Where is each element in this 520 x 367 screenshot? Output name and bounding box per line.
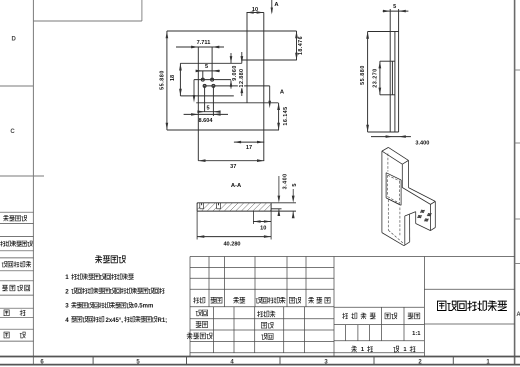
dim 10 (section) extensions <box>252 211 254 224</box>
dim 5 upper dimension line <box>196 70 220 72</box>
strip top edge + extension <box>197 202 296 204</box>
dim 5 lower dimension line <box>199 111 219 113</box>
top extension to 55.880 dim <box>368 31 391 33</box>
svg-text:10: 10 <box>260 225 266 231</box>
18-dim bottom extension / arm bottom y=95.9 <box>180 95 233 97</box>
svg-text:5: 5 <box>393 4 396 10</box>
tech requirements title 技术要求 <box>96 256 126 263</box>
dim 18 dimension line (vertical) <box>179 63 181 96</box>
svg-text:5: 5 <box>205 64 208 70</box>
svg-text:18.476: 18.476 <box>298 36 304 55</box>
section zigzag right end with arrow <box>269 86 271 102</box>
hole H4 lower-right <box>212 84 215 87</box>
left table label: 签字 <box>4 310 9 316</box>
svg-text:55.880: 55.880 <box>160 70 166 90</box>
left table label: (通)用件登记 <box>1 241 33 246</box>
svg-text:18: 18 <box>170 75 176 81</box>
section hatch <box>190 203 278 211</box>
svg-text:3.400: 3.400 <box>283 173 289 189</box>
row 设计 / 标准化 <box>196 310 208 316</box>
dim 18.476 dimension line <box>296 31 298 60</box>
arm lower edge y=102.8 <box>196 102 278 104</box>
ext line x=204.6 <box>204 86 206 112</box>
dim 7.711 dimension line <box>176 46 224 48</box>
svg-text:9.060: 9.060 <box>232 65 238 81</box>
part bottom edge + extensions y=130 <box>167 129 279 131</box>
svg-text:55.880: 55.880 <box>360 65 366 85</box>
hole slot 2 sides <box>216 203 218 209</box>
drawing border: top-left box horizontal <box>33 20 141 22</box>
dim 12.880 arrows <box>241 52 243 63</box>
dim 16.145 dimension line <box>278 103 280 130</box>
svg-text:12.880: 12.880 <box>239 69 245 88</box>
svg-text:10: 10 <box>252 7 258 13</box>
dim 3.400 dimension line (side bottom) <box>371 136 411 138</box>
slot bottom extension y=94.8 <box>380 94 395 96</box>
lower hole row line y=85.9 <box>203 85 270 87</box>
slot top extension y=61.2 <box>380 60 395 62</box>
ext line x=213.4 <box>212 86 214 116</box>
svg-text:5: 5 <box>206 105 209 111</box>
left table label: 零件代号 <box>4 216 27 221</box>
border bottom thick line <box>0 356 520 358</box>
dim 17 dimension line <box>234 141 264 143</box>
阶段标记 <box>343 313 376 319</box>
iso slot inner bottom edge <box>382 147 435 245</box>
tab left edge x=247 <box>246 13 248 103</box>
质量 <box>385 313 397 319</box>
drawing border: top-left box vertical <box>141 0 143 21</box>
dim 5 (section) arrows <box>292 189 294 196</box>
dim 3.400 (section) arrows <box>278 176 280 196</box>
svg-text:23.270: 23.270 <box>373 68 379 88</box>
svg-text:±0.5mm: ±0.5mm <box>131 304 153 310</box>
title block name box rows <box>190 257 515 357</box>
drawing border: right vertical line <box>514 0 516 365</box>
section zigzag left end with arrow <box>193 80 195 97</box>
svg-text:3.400: 3.400 <box>415 140 429 146</box>
iso holes on arm face <box>417 210 432 222</box>
plate top edge <box>390 31 398 33</box>
dim 9.060 arrows <box>230 53 232 63</box>
top edge + extension lines y=31 <box>167 30 297 32</box>
plate right edge + ext x=398.6 <box>398 9 400 132</box>
left table label: 日期 <box>4 332 9 338</box>
dim 10 dimension line <box>247 12 264 14</box>
dim 8.604 dimension line <box>184 113 228 115</box>
iso slot inner offset frame (hidden) <box>388 154 404 244</box>
part name 机械爪子固定架 <box>438 301 507 310</box>
dim 37 dimension line <box>198 160 264 162</box>
svg-text:C: C <box>10 129 15 135</box>
part right edge x=263.8 <box>263 13 265 161</box>
slot edge-on rectangle <box>391 61 393 95</box>
left table label: 底图总号 <box>3 285 30 291</box>
left margin attached table rows <box>0 211 33 213</box>
svg-text:A-A: A-A <box>231 183 242 189</box>
plate bottom edge + extension <box>368 131 399 133</box>
第 1 张 <box>394 346 399 352</box>
plate inner line x=394.9 <box>394 32 396 133</box>
svg-text:4: 4 <box>65 317 69 324</box>
svg-text:5: 5 <box>292 183 298 186</box>
svg-text:37: 37 <box>230 164 236 170</box>
right margin zone dividers <box>515 69 520 71</box>
dim 10 (section) dimension line <box>253 221 271 223</box>
hole slots (white) in section <box>200 203 204 208</box>
svg-text:2x45°,: 2x45°, <box>106 318 124 324</box>
hole H2 upper-right <box>211 78 214 81</box>
paper bottom edge line <box>0 364 520 366</box>
svg-text:1:1: 1:1 <box>412 331 421 337</box>
section line A top end with arrow <box>271 0 273 13</box>
strip bottom edge + extension <box>197 210 296 212</box>
svg-text:40.280: 40.280 <box>223 242 240 248</box>
dim 40.280 extensions <box>196 211 198 239</box>
body top edge y=63.3 <box>180 62 241 64</box>
dim 23.270 dimension line <box>379 61 381 95</box>
header 标记 处数 分区 更改文件号 签名 年月日 <box>194 297 205 303</box>
step bottom edge y=208.8 <box>271 208 281 210</box>
dim 40.280 dimension line <box>197 236 271 238</box>
ext line x=212.1 <box>211 47 213 80</box>
svg-text:7.711: 7.711 <box>197 40 211 46</box>
svg-text:17: 17 <box>246 145 252 151</box>
svg-text:D: D <box>12 36 17 42</box>
svg-text:A: A <box>516 312 520 318</box>
plate left edge + ext x=390.2 <box>389 9 391 132</box>
section strip outline <box>196 203 198 211</box>
svg-text:8.604: 8.604 <box>199 118 214 124</box>
svg-text:2: 2 <box>65 288 69 295</box>
hole H3 lower-left <box>203 84 206 87</box>
svg-text:1: 1 <box>65 274 69 281</box>
svg-text:3: 3 <box>65 303 69 310</box>
bottom zone ticks <box>92 357 94 365</box>
row 主管设计 / 审核 <box>187 333 212 339</box>
ext line x=202.8 <box>202 71 204 80</box>
left margin zone divider D/C <box>0 85 33 87</box>
left margin zone divider C/B <box>0 175 44 177</box>
left table label: 旧底图总号 <box>2 262 31 267</box>
svg-text:16.145: 16.145 <box>283 106 289 125</box>
part left edge x=198.3 <box>197 47 199 161</box>
hole H1 upper-left <box>201 78 204 81</box>
svg-text:R1;: R1; <box>158 318 168 324</box>
dim 5 dimension line (top) <box>383 10 409 12</box>
比例 <box>408 313 420 319</box>
共 1 张 <box>352 346 357 352</box>
drawing border: left vertical line <box>32 0 34 365</box>
row 校核 / 工艺 <box>196 322 208 328</box>
dim 55.880 dimension line (vertical) <box>166 31 168 130</box>
upper hole row line y=79.6 <box>194 79 233 81</box>
tab bottom extension y=60 <box>242 59 297 61</box>
dim 55.880 dimension line (side) <box>367 32 369 133</box>
hole slot 1 sides <box>199 203 201 209</box>
